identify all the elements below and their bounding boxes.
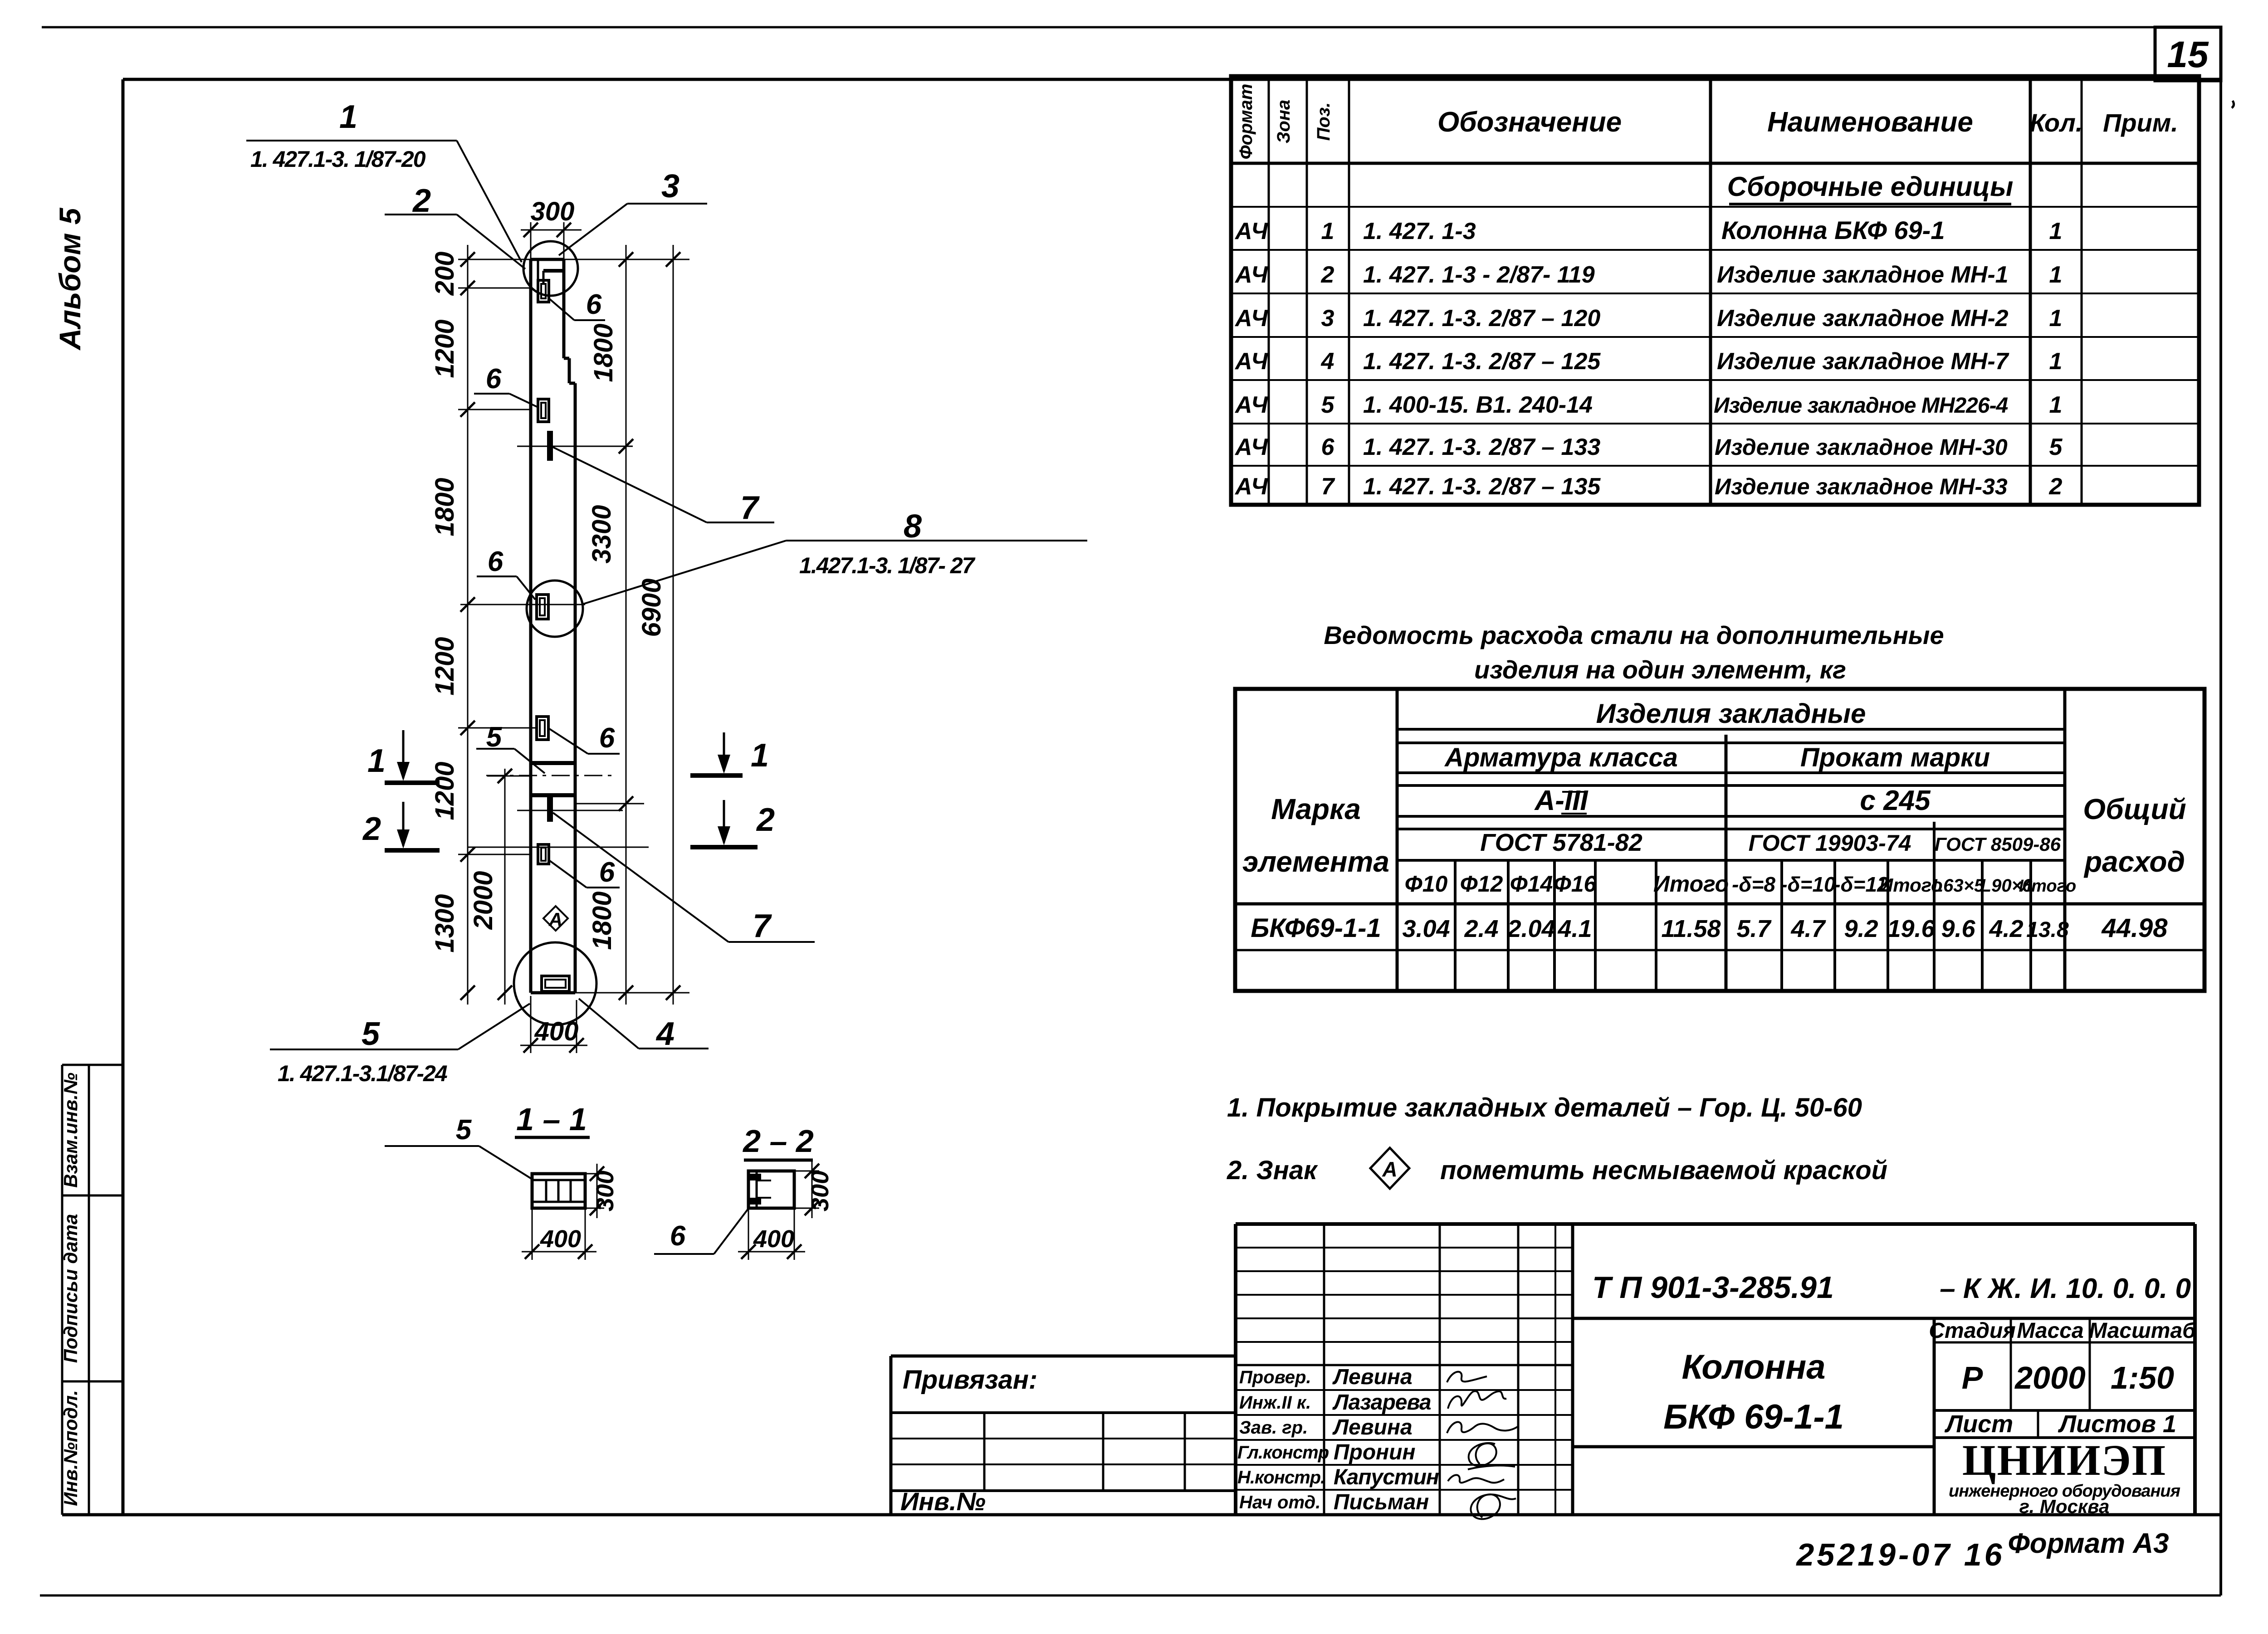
svg-text:400: 400	[534, 1017, 579, 1046]
spec header labels	[1236, 84, 2178, 160]
embedded item MH-30 (pos 6)	[537, 717, 548, 740]
note 2	[1227, 1148, 1887, 1189]
svg-text:3: 3	[1321, 305, 1334, 332]
svg-text:1: 1	[2049, 305, 2063, 332]
svg-text:1: 1	[2049, 262, 2063, 288]
spec section header: Сборочные единицы	[1727, 171, 2014, 204]
svg-text:300: 300	[591, 1171, 619, 1211]
section marker 1 right	[690, 732, 769, 776]
svg-text:Изделие закладное МН-2: Изделие закладное МН-2	[1717, 305, 2009, 332]
spec row 4	[1234, 348, 2062, 375]
detail circle top	[523, 241, 578, 296]
svg-text:АЧ: АЧ	[1234, 348, 1268, 375]
svg-text:АЧ: АЧ	[1234, 262, 1268, 288]
svg-text:300: 300	[807, 1171, 834, 1211]
svg-text:400: 400	[753, 1225, 794, 1253]
svg-text:3300: 3300	[587, 505, 616, 563]
callout 6 (fifth item)	[550, 857, 620, 888]
embedded item MH-30 in middle circle (pos 6)	[537, 595, 548, 619]
svg-text:ГОСТ 5781-82: ГОСТ 5781-82	[1480, 829, 1642, 856]
svg-text:Нач отд.: Нач отд.	[1239, 1493, 1320, 1512]
callout 4	[579, 999, 709, 1052]
svg-text:Прокат марки: Прокат марки	[1800, 743, 1990, 772]
svg-text:6900: 6900	[637, 578, 666, 637]
svg-text:1. Покрытие закладных дет: 1. Покрытие закладных деталей – Гор. Ц. …	[1227, 1093, 1862, 1122]
svg-text:15: 15	[2167, 34, 2209, 75]
svg-text:Изделие закладное МН-1: Изделие закладное МН-1	[1717, 262, 2009, 288]
section marker 1 left	[367, 730, 440, 783]
svg-text:Лист: Лист	[1944, 1410, 2013, 1438]
svg-text:1: 1	[367, 743, 386, 779]
svg-text:5: 5	[362, 1016, 380, 1052]
svg-text:2: 2	[756, 802, 775, 838]
svg-text:Ф10: Ф10	[1405, 871, 1448, 897]
top plate detail (MH-1)	[538, 260, 564, 295]
svg-text:Письман: Письман	[1334, 1490, 1429, 1514]
svg-text:БКФ 69-1-1: БКФ 69-1-1	[1663, 1398, 1844, 1436]
left dim line chain 200/1200/1800/1200/1200/1300	[458, 245, 585, 1005]
detail circle middle	[527, 580, 583, 637]
signer labels	[1237, 1367, 1329, 1512]
svg-text:5: 5	[456, 1114, 472, 1146]
svg-text:1. 427. 1-3: 1. 427. 1-3	[1363, 218, 1476, 244]
svg-text:Изделие закладное МН-30: Изделие закладное МН-30	[1715, 434, 2008, 460]
svg-text:Альбом 5: Альбом 5	[53, 207, 87, 351]
bottom dim 400	[520, 996, 587, 1053]
frame left line	[122, 79, 125, 1515]
svg-text:изделия на один элемент, кг: изделия на один элемент, кг	[1474, 655, 1846, 684]
svg-text:Итого: Итого	[1653, 871, 1729, 897]
section marker 2 right	[690, 800, 775, 847]
spec row 2	[1234, 262, 2062, 288]
svg-text:1300: 1300	[430, 894, 459, 952]
section marker 2 left	[362, 802, 440, 850]
column outline	[531, 259, 575, 993]
svg-text:ГОСТ 19903-74: ГОСТ 19903-74	[1749, 830, 1911, 856]
frame top line	[123, 78, 2221, 81]
callout 5 with ref 1.427.1-3.1/87-24	[270, 1004, 530, 1086]
svg-text:2: 2	[2049, 473, 2063, 500]
svg-text:1800: 1800	[430, 478, 459, 536]
svg-text:2000: 2000	[2014, 1360, 2086, 1395]
svg-text:А: А	[1382, 1157, 1397, 1181]
svg-text:АЧ: АЧ	[1234, 434, 1268, 460]
svg-text:1. 427. 1-3. 2/87 – 135: 1. 427. 1-3. 2/87 – 135	[1363, 473, 1601, 500]
svg-text:Взам.инв.№: Взам.инв.№	[60, 1073, 81, 1188]
doc number row	[1592, 1270, 2191, 1305]
svg-text:ЦНИИЭП: ЦНИИЭП	[1962, 1436, 2166, 1484]
svg-text:6: 6	[670, 1220, 686, 1252]
detail 1-1 callout 5	[385, 1114, 532, 1179]
svg-text:2000: 2000	[469, 871, 498, 930]
callout 6 (second item)	[474, 363, 538, 407]
spec row 6	[1234, 434, 2063, 460]
callout 1 with ref 1.427.1-3.1/87-20	[246, 99, 522, 262]
svg-text:1200: 1200	[430, 637, 459, 695]
svg-text:Привязан:: Привязан:	[903, 1365, 1037, 1395]
svg-text:6: 6	[1321, 434, 1335, 460]
svg-text:1.427.1-3. 1/87- 27: 1.427.1-3. 1/87- 27	[799, 553, 976, 578]
svg-text:1: 1	[2049, 348, 2063, 375]
svg-text:Изделия закладные: Изделия закладные	[1596, 698, 1866, 729]
svg-text:1. 427. 1-3. 2/87 – 120: 1. 427. 1-3. 2/87 – 120	[1363, 305, 1600, 332]
svg-text:1800: 1800	[587, 891, 617, 950]
title block grid	[1236, 1224, 2195, 1515]
svg-text:1: 1	[751, 737, 769, 774]
svg-text:2. Знак: 2. Знак	[1227, 1156, 1318, 1185]
bottom outer paper rule	[40, 1595, 2221, 1597]
svg-text:Зав. гр.: Зав. гр.	[1239, 1418, 1308, 1438]
svg-text:Формат А3: Формат А3	[2008, 1528, 2169, 1559]
svg-text:6: 6	[488, 546, 503, 577]
svg-text:с 245: с 245	[1860, 785, 1931, 816]
joint bar upper	[531, 761, 575, 765]
svg-text:Наименование: Наименование	[1767, 107, 1973, 138]
mark A diamond on column	[543, 906, 568, 931]
callout 6 (top circle)	[548, 289, 605, 320]
svg-text:Прим.: Прим.	[2103, 108, 2178, 137]
svg-text:1: 1	[339, 99, 357, 135]
section cut 2-2 line	[467, 847, 649, 848]
object name cell	[1573, 1318, 2195, 1515]
detail 2-2 dim 400	[738, 1208, 805, 1260]
svg-text:Листов 1: Листов 1	[2058, 1410, 2176, 1438]
svg-text:5: 5	[2049, 434, 2063, 460]
svg-text:4.7: 4.7	[1790, 915, 1826, 942]
stage/mass/scale cells	[1929, 1318, 2196, 1410]
spec table grid	[1231, 76, 2199, 505]
svg-text:Формат: Формат	[1236, 84, 1256, 160]
svg-text:Т П 901-3-285.91: Т П 901-3-285.91	[1592, 1270, 1834, 1305]
svg-text:4: 4	[1321, 348, 1334, 375]
sheet number box 15	[2155, 27, 2221, 81]
svg-text:Кол.: Кол.	[2030, 108, 2083, 137]
svg-text:расход: расход	[2083, 845, 2185, 878]
steel table title	[1324, 621, 1944, 684]
svg-text:Лазарева: Лазарева	[1332, 1390, 1431, 1415]
svg-text:Левина: Левина	[1332, 1415, 1413, 1439]
svg-text:Поз.: Поз.	[1314, 102, 1334, 141]
steel data row	[1251, 913, 2168, 943]
svg-text:Стадия: Стадия	[1929, 1319, 2015, 1343]
embedded item MH-30 (pos 6)	[538, 844, 549, 864]
svg-text:4.2: 4.2	[1989, 915, 2023, 942]
svg-text:6: 6	[486, 363, 502, 395]
svg-text:Масса: Масса	[2017, 1319, 2083, 1343]
svg-text:2: 2	[362, 811, 381, 847]
detail 2-2 body	[748, 1171, 794, 1208]
embedded item MH-30 (top, pos 6)	[538, 280, 549, 302]
anchor bar pos 7 (upper)	[517, 431, 633, 461]
steel sub headers	[1405, 871, 2077, 897]
svg-text:400: 400	[540, 1225, 581, 1253]
anchor bar pos 7 (lower)	[517, 797, 623, 822]
svg-text:Ф16: Ф16	[1554, 871, 1597, 897]
svg-text:– К Ж. И. 10. 0. 0. 0: – К Ж. И. 10. 0. 0. 0	[1940, 1273, 2191, 1304]
svg-text:Колонна: Колонна	[1681, 1348, 1825, 1386]
A-III overline/underline	[1561, 813, 1587, 815]
svg-text:1. 427. 1-3. 2/87 – 133: 1. 427. 1-3. 2/87 – 133	[1363, 434, 1600, 460]
svg-text:3: 3	[661, 168, 679, 205]
signer names	[1332, 1365, 1439, 1514]
callout 6 (middle circle item)	[477, 546, 535, 600]
institute cell	[1949, 1436, 2180, 1517]
svg-text:Марка: Марка	[1271, 793, 1361, 825]
steel table grid	[1235, 689, 2204, 991]
svg-text:Общий: Общий	[2083, 793, 2186, 825]
svg-text:Обозначение: Обозначение	[1437, 107, 1622, 138]
svg-text:Капустин: Капустин	[1334, 1465, 1439, 1489]
svg-text:4: 4	[655, 1016, 675, 1052]
svg-text:Сборочные единицы: Сборочные единицы	[1727, 171, 2014, 202]
svg-text:8: 8	[904, 508, 922, 545]
svg-text:Гл.констр: Гл.констр	[1237, 1443, 1329, 1463]
svg-text:13.8: 13.8	[2026, 918, 2069, 942]
svg-text:Изделие закладное МН-33: Изделие закладное МН-33	[1715, 474, 2008, 499]
detail 2-2 callout 6	[654, 1207, 749, 1254]
steel table heads	[1242, 698, 2186, 878]
svg-text:Пронин: Пронин	[1334, 1440, 1415, 1464]
svg-text:300: 300	[531, 197, 575, 226]
svg-text:Н.констр.: Н.констр.	[1237, 1468, 1325, 1488]
svg-text:Подписьи дата: Подписьи дата	[60, 1214, 81, 1363]
svg-text:1200: 1200	[430, 761, 459, 820]
svg-text:1800: 1800	[589, 323, 618, 382]
svg-text:ГОСТ 8509-86: ГОСТ 8509-86	[1935, 834, 2061, 855]
svg-text:1200: 1200	[430, 319, 459, 378]
svg-text:7: 7	[753, 908, 772, 944]
right dim line 1800/3300/1800	[564, 245, 689, 1005]
svg-text:2.04: 2.04	[1507, 915, 1555, 942]
svg-text:2 – 2: 2 – 2	[742, 1123, 814, 1159]
svg-text:А: А	[548, 909, 562, 930]
detail 1-1 dim 400	[522, 1208, 596, 1260]
svg-text:АЧ: АЧ	[1234, 305, 1268, 332]
callout 5 (joint)	[476, 722, 545, 773]
svg-text:1: 1	[2049, 218, 2063, 244]
svg-text:1 – 1: 1 – 1	[516, 1102, 587, 1137]
svg-text:Изделие закладное МН-7: Изделие закладное МН-7	[1717, 348, 2009, 375]
svg-text:1. 427. 1-3. 2/87 – 125: 1. 427. 1-3. 2/87 – 125	[1363, 348, 1601, 375]
svg-text:Левина: Левина	[1332, 1365, 1413, 1389]
scan speck	[2232, 101, 2234, 108]
svg-text:7: 7	[1321, 473, 1335, 500]
svg-text:Инв.№: Инв.№	[900, 1487, 986, 1516]
detail 2-2 dim 300	[794, 1161, 834, 1218]
svg-text:АЧ: АЧ	[1234, 473, 1268, 500]
svg-text:1. 427.1-3.1/87-24: 1. 427.1-3.1/87-24	[278, 1061, 447, 1086]
detail 1-1 dim 300	[585, 1164, 619, 1218]
right frame line	[2219, 27, 2222, 1595]
spec row 5	[1234, 392, 2062, 418]
svg-text:4.1: 4.1	[1557, 915, 1592, 942]
svg-text:А-III: А-III	[1534, 785, 1589, 816]
svg-text:Р: Р	[1962, 1360, 1983, 1395]
callout 6 (fourth item)	[548, 722, 620, 754]
svg-text:1. 400-15. В1. 240-14: 1. 400-15. В1. 240-14	[1363, 392, 1593, 418]
svg-text:2.4: 2.4	[1464, 915, 1498, 942]
svg-text:Ф14: Ф14	[1510, 871, 1553, 897]
svg-text:6: 6	[599, 857, 615, 888]
svg-text:5.7: 5.7	[1736, 915, 1772, 942]
svg-text:БКФ69-1-1: БКФ69-1-1	[1251, 913, 1381, 943]
svg-text:Инв.№подл.: Инв.№подл.	[60, 1390, 81, 1506]
svg-text:1. 427.1-3. 1/87-20: 1. 427.1-3. 1/87-20	[250, 146, 426, 172]
top dim 300	[521, 197, 582, 259]
section cut 1-1 dash-dot line	[486, 775, 614, 776]
svg-text:Арматура класса: Арматура класса	[1444, 743, 1678, 772]
svg-text:Итого: Итого	[2019, 877, 2076, 896]
joint bar lower	[531, 793, 575, 797]
svg-text:Колонна БКФ 69-1: Колонна БКФ 69-1	[1721, 216, 1945, 244]
detail 1-1 body (MH226-4 plan)	[532, 1174, 585, 1208]
svg-text:АЧ: АЧ	[1234, 218, 1268, 244]
svg-text:19.6: 19.6	[1887, 915, 1935, 942]
callout 8 with ref 1.427.1-3.1/87-27	[583, 508, 1087, 604]
svg-text:1. 427. 1-3 - 2/87- 119: 1. 427. 1-3 - 2/87- 119	[1363, 262, 1595, 288]
svg-text:200: 200	[430, 252, 459, 296]
signatures	[1447, 1372, 1518, 1519]
callout 2	[385, 183, 525, 269]
side stamp strip	[62, 1065, 123, 1515]
privyazan box	[891, 1356, 1236, 1516]
callout 7 (lower bar)	[553, 813, 815, 944]
svg-text:3.04: 3.04	[1402, 915, 1450, 942]
svg-text:11.58: 11.58	[1661, 915, 1721, 942]
svg-text:Изделие закладное МН226-4: Изделие закладное МН226-4	[1714, 394, 2008, 418]
dim line 2000	[469, 769, 531, 1005]
svg-text:5: 5	[1321, 392, 1335, 418]
svg-text:1: 1	[1321, 218, 1334, 244]
svg-text:Провер.: Провер.	[1239, 1367, 1311, 1387]
svg-text:элемента: элемента	[1242, 845, 1389, 878]
frame bottom line	[62, 1513, 2221, 1517]
detail circle bottom	[514, 942, 596, 1025]
svg-text:-δ=8: -δ=8	[1732, 873, 1775, 896]
embedded item MH-30 (pos 6)	[538, 399, 549, 422]
spec row 3	[1234, 305, 2062, 332]
svg-text:9.2: 9.2	[1844, 915, 1878, 942]
svg-text:пометить несмываемой краск: пометить несмываемой краской	[1440, 1156, 1887, 1185]
svg-text:г. Москва: г. Москва	[2019, 1496, 2110, 1517]
svg-text:Инж.II к.: Инж.II к.	[1239, 1393, 1311, 1413]
svg-text:L63×5: L63×5	[1932, 876, 1984, 896]
svg-text:АЧ: АЧ	[1234, 392, 1268, 418]
svg-text:1:50: 1:50	[2111, 1360, 2174, 1395]
right dim line 6900	[637, 245, 680, 1005]
svg-text:6: 6	[586, 289, 602, 320]
svg-text:6: 6	[599, 722, 615, 754]
list row	[1934, 1410, 2195, 1438]
spec row 7	[1234, 473, 2063, 500]
spec row 1	[1234, 216, 2062, 244]
embedded item MH226-4 (bottom, pos 5)	[542, 976, 569, 991]
svg-text:7: 7	[740, 490, 760, 526]
svg-text:Ф12: Ф12	[1460, 871, 1503, 897]
callout 3	[559, 168, 707, 255]
svg-text:Зона: Зона	[1274, 100, 1294, 144]
svg-text:-δ=10: -δ=10	[1780, 873, 1836, 896]
top paper rule	[42, 26, 2221, 29]
svg-text:Ведомость расхода стали на: Ведомость расхода стали на дополнительны…	[1324, 621, 1944, 649]
svg-text:1: 1	[2049, 392, 2063, 418]
svg-text:44.98: 44.98	[2101, 913, 2168, 943]
svg-text:25219-07 16: 25219-07 16	[1795, 1537, 2004, 1572]
svg-text:9.6: 9.6	[1941, 915, 1975, 942]
callout 7 (upper bar)	[553, 447, 774, 526]
svg-text:2: 2	[1321, 262, 1334, 288]
svg-text:Масштаб: Масштаб	[2089, 1319, 2196, 1343]
